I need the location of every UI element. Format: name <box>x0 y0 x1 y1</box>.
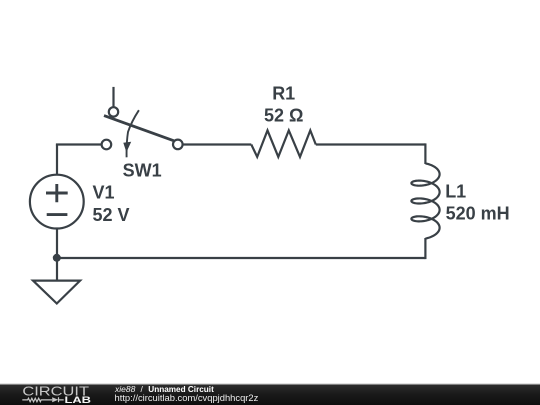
switch SW1 right terminal circle <box>173 140 183 150</box>
svg-text:http://circuitlab.com/cvqpjdhh: http://circuitlab.com/cvqpjdhhcqr2z <box>115 392 259 403</box>
footer bar top edge highlight <box>0 384 540 385</box>
wire V1 bottom to ground <box>56 229 58 281</box>
wire R1 to top-right corner <box>316 143 426 145</box>
switch SW1 top throw stub <box>112 87 114 107</box>
CircuitLab logo resistor-diode squiggle <box>22 397 63 402</box>
wire top-left horizontal to SW1 left terminal <box>56 143 102 145</box>
wire right vertical down to L1 <box>424 143 426 164</box>
svg-text:R1: R1 <box>272 83 295 103</box>
svg-text:V1: V1 <box>93 183 115 203</box>
switch SW1 actuation arrow <box>123 110 139 157</box>
svg-text:52 Ω: 52 Ω <box>264 105 303 125</box>
switch SW1 arm <box>104 116 174 141</box>
resistor R1 zigzag <box>251 130 315 157</box>
wire bottom horizontal <box>57 257 426 259</box>
svg-text:LAB: LAB <box>65 395 92 405</box>
ground symbol <box>33 281 80 304</box>
voltage source V1 plus sign <box>46 184 68 202</box>
svg-text:L1: L1 <box>445 182 466 202</box>
svg-text:52 V: 52 V <box>93 205 130 225</box>
CircuitLab logo diode triangle <box>52 397 58 402</box>
wire L1 bottom vertical <box>424 238 426 259</box>
switch SW1 left terminal circle <box>102 140 112 150</box>
junction dot <box>53 254 61 262</box>
svg-text:520 mH: 520 mH <box>446 204 510 224</box>
voltage source V1 circle <box>30 175 84 229</box>
wire SW1 right to R1 <box>183 143 252 145</box>
svg-text:SW1: SW1 <box>123 160 162 180</box>
wire V1 top vertical <box>56 145 58 175</box>
footer bar <box>0 384 540 405</box>
voltage source V1 minus sign <box>47 213 68 216</box>
switch SW1 top terminal circle <box>109 107 118 116</box>
inductor L1 coil <box>411 163 439 238</box>
